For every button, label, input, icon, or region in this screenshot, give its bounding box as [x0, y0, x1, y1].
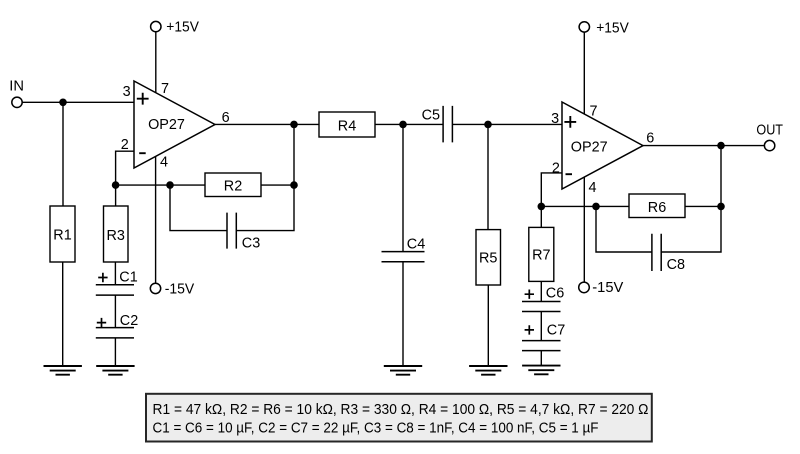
wire C7 to ground	[540, 351, 542, 366]
resistor R7	[529, 227, 554, 281]
node C3 branch junction	[166, 181, 174, 189]
node R4-C5-C4 junction	[399, 121, 407, 129]
node U1 output junction	[290, 121, 298, 129]
wire node to C3 left	[170, 185, 227, 231]
node C8 branch junction	[592, 203, 600, 211]
wire U2 pin 4 to -15V	[583, 177, 585, 282]
svg-text:C5: C5	[422, 108, 440, 124]
wire C8 right to feedback node	[661, 206, 721, 252]
ground under C2	[96, 366, 134, 375]
node feedback 1 left junction	[112, 181, 120, 189]
svg-text:R5: R5	[479, 251, 497, 267]
resistor R2	[205, 173, 261, 197]
svg-text:2: 2	[121, 137, 129, 153]
wire U1 output row	[215, 123, 319, 125]
terminal +15V supply 2	[579, 20, 629, 36]
svg-text:2: 2	[552, 160, 560, 176]
svg-text:+15V: +15V	[596, 20, 629, 36]
capacitor C5	[422, 106, 453, 142]
wire node to R7	[540, 206, 542, 227]
svg-text:4: 4	[589, 180, 597, 196]
wire R5 column	[487, 124, 489, 229]
svg-text:IN: IN	[9, 79, 24, 95]
wire R3 to C1	[114, 262, 116, 285]
capacitor C3	[227, 213, 260, 252]
svg-text:3: 3	[123, 84, 131, 100]
wire C5 to U2 pin 3	[452, 123, 562, 125]
wire R6 to node	[685, 205, 721, 207]
svg-text:C3: C3	[242, 235, 260, 251]
svg-text:4: 4	[160, 155, 168, 171]
svg-text:C7: C7	[547, 322, 565, 338]
resistor R6	[629, 194, 685, 218]
svg-text:6: 6	[646, 130, 654, 146]
svg-text:OP27: OP27	[571, 139, 608, 155]
svg-text:R2: R2	[224, 179, 242, 195]
terminal IN	[9, 79, 24, 108]
wire C4 column	[402, 124, 404, 251]
capacitor C6 polarized	[522, 286, 564, 312]
wire C6 to C7	[540, 312, 542, 341]
ground under R5	[469, 366, 507, 375]
svg-text:-15V: -15V	[592, 280, 623, 296]
terminal +15V supply 1	[151, 19, 199, 35]
svg-text:-15V: -15V	[165, 282, 195, 298]
node feedback 2 right junction	[717, 203, 725, 211]
wire U1 pin 4 to -15V	[155, 155, 157, 283]
wire U1 pin 2 stub	[116, 151, 134, 185]
svg-text:R3: R3	[106, 228, 124, 244]
resistor R3	[104, 206, 129, 262]
svg-text:+15V: +15V	[166, 19, 199, 35]
wire node to C8 left	[596, 206, 652, 252]
node U2 output junction	[717, 142, 725, 150]
wire R1 column from input node	[62, 102, 64, 206]
op-amp U2	[562, 102, 643, 189]
svg-text:R6: R6	[648, 200, 666, 216]
capacitor C7 polarized	[522, 322, 565, 350]
wire feedback row 1 left	[116, 184, 205, 186]
resistor R4	[319, 112, 375, 137]
wire IN to op-amp U1 pin 3	[22, 101, 134, 103]
wire R1 to ground	[62, 262, 64, 366]
svg-text:3: 3	[551, 111, 559, 127]
svg-text:6: 6	[222, 110, 230, 126]
resistor R5	[476, 230, 501, 285]
wire node to R3	[115, 185, 117, 206]
wire U2 pin 2 stub	[541, 173, 562, 207]
capacitor C8	[652, 234, 685, 273]
resistor R1	[50, 206, 75, 262]
wire C2 to ground	[114, 338, 116, 366]
terminal -15V supply 2	[579, 280, 624, 296]
svg-text:C4: C4	[407, 236, 425, 252]
node feedback 1 right junction	[290, 181, 298, 189]
wire output node to feedback node	[293, 124, 295, 185]
svg-text:C2: C2	[120, 313, 138, 329]
svg-text:R1: R1	[53, 228, 71, 244]
svg-text:C8: C8	[667, 257, 685, 273]
op-amp U1	[134, 81, 215, 168]
node feedback 2 left junction	[538, 203, 546, 211]
wire +15V to U2 pin 7	[583, 32, 585, 114]
component values note box	[146, 394, 652, 442]
wire R2 to node	[261, 184, 294, 186]
svg-text:R1 = 47 kΩ, R2 = R6 = 10 kΩ, R: R1 = 47 kΩ, R2 = R6 = 10 kΩ, R3 = 330 Ω,…	[153, 402, 649, 418]
ground under R1	[44, 366, 82, 375]
node input junction	[59, 99, 67, 107]
wire R5 to ground	[487, 285, 489, 366]
svg-text:C1: C1	[119, 270, 137, 286]
wire U2 output row to OUT	[643, 145, 764, 147]
svg-text:C1 = C6 = 10 µF, C2 = C7 = 22: C1 = C6 = 10 µF, C2 = C7 = 22 µF, C3 = C…	[153, 421, 599, 437]
wire R4 to C5	[375, 123, 443, 125]
wire C3 right to feedback node	[236, 185, 294, 231]
wire C1 to C2	[114, 295, 116, 328]
svg-text:7: 7	[590, 103, 598, 119]
svg-text:R4: R4	[338, 119, 356, 135]
wire feedback row 2 left	[541, 205, 629, 207]
node C5-R5 junction	[484, 121, 492, 129]
svg-text:7: 7	[161, 81, 169, 97]
ground under C4	[384, 366, 422, 375]
svg-text:R7: R7	[532, 248, 550, 264]
terminal OUT	[756, 123, 783, 151]
svg-text:C6: C6	[546, 286, 564, 302]
ground under C7	[522, 366, 560, 375]
wire C4 to ground	[402, 262, 404, 366]
terminal -15V supply 1	[150, 282, 194, 298]
wire +15V to U1 pin 7	[155, 32, 157, 93]
svg-text:OUT: OUT	[756, 123, 783, 139]
capacitor C2 polarized	[96, 313, 138, 338]
wire R7 to C6	[540, 281, 542, 301]
capacitor C1 polarized	[96, 270, 138, 296]
svg-text:OP27: OP27	[148, 117, 185, 133]
wire output 2 node to feedback node	[720, 146, 722, 207]
capacitor C4	[382, 236, 426, 261]
